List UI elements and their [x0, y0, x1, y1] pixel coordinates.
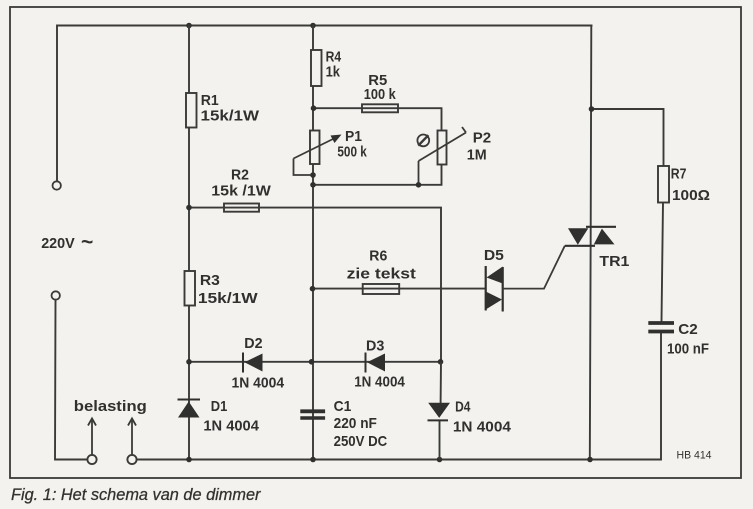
- label D3 value 1N4004: [354, 374, 405, 391]
- wire R7 to C2: [662, 203, 664, 322]
- label R3 designator: [200, 272, 220, 289]
- terminal belasting left: [87, 455, 96, 464]
- svg-text:TR1: TR1: [599, 253, 629, 270]
- label R2 value 15k/1W: [211, 183, 271, 200]
- svg-text:1N 4004: 1N 4004: [232, 375, 285, 392]
- node D4 rail at bottom wire: [437, 457, 443, 463]
- resistor R2 horizontal: [224, 204, 259, 212]
- svg-text:~: ~: [81, 231, 93, 254]
- node P2 wiper junction: [416, 182, 422, 188]
- label R4 value 1k: [326, 64, 341, 81]
- wire R1 rail vertical: [188, 26, 190, 460]
- belasting arrow left: [88, 419, 96, 455]
- svg-text:1N 4004: 1N 4004: [453, 419, 512, 436]
- resistor R6 horizontal: [363, 284, 400, 294]
- label C1 value 250V DC: [334, 433, 388, 450]
- wire R2 run: [186, 205, 441, 362]
- node D2 left junction: [186, 359, 192, 365]
- resistor R3: [185, 271, 196, 306]
- diode D1 (pointing up): [178, 400, 201, 418]
- diode D3 (pointing left): [366, 353, 386, 373]
- P1 wiper arrow: [294, 135, 342, 178]
- belasting arrow right: [128, 419, 136, 455]
- label R7 value 100ohm: [672, 187, 710, 204]
- terminal upper 220V: [53, 181, 61, 189]
- resistor R1: [186, 93, 197, 128]
- label net 220V mains: [41, 235, 75, 252]
- svg-text:15k /1W: 15k /1W: [211, 183, 271, 200]
- svg-text:500 k: 500 k: [337, 144, 367, 161]
- P1 wiper bent lead: [294, 159, 314, 176]
- label D2 designator: [244, 335, 262, 352]
- label TR1 designator: [599, 253, 629, 270]
- node P bottom run at R4 rail: [310, 182, 316, 188]
- svg-text:R2: R2: [231, 166, 249, 183]
- svg-text:C2: C2: [678, 321, 698, 338]
- node TR1 gate-branch junction: [589, 106, 595, 112]
- node R2 left junction: [186, 205, 192, 211]
- node P1 wiper junction: [310, 172, 316, 178]
- terminal belasting right: [127, 455, 136, 464]
- label P1 designator: [345, 128, 362, 145]
- P2 wiper with tick: [416, 127, 466, 188]
- label P2 designator: [473, 130, 491, 147]
- svg-text:100 k: 100 k: [364, 86, 397, 103]
- node R4 bottom / R5 / P1 junction: [311, 105, 317, 111]
- label C2 value 100nF: [667, 341, 709, 358]
- diode D4 (pointing down): [428, 403, 451, 421]
- svg-text:R7: R7: [671, 166, 687, 183]
- wire D5 gate run: [503, 246, 565, 289]
- svg-text:1M: 1M: [467, 147, 487, 164]
- label P1 value 500k: [337, 144, 367, 161]
- potentiometer P2: [438, 131, 447, 165]
- svg-text:C1: C1: [334, 398, 352, 415]
- diode D2 (pointing left): [243, 353, 263, 373]
- label D1 value 1N4004: [203, 418, 259, 435]
- label R6 value zie tekst: [347, 265, 416, 282]
- capacitor C2: [648, 323, 674, 332]
- svg-text:1k: 1k: [326, 64, 341, 81]
- wire top rail: [57, 26, 592, 182]
- triac TR1: [565, 227, 616, 246]
- wire R4 rail vertical: [312, 26, 314, 460]
- wire R5 run: [311, 105, 442, 130]
- node C1 rail at bottom wire: [310, 457, 316, 463]
- wire R7 branch: [592, 109, 664, 166]
- diac D5: [486, 266, 503, 312]
- svg-text:belasting: belasting: [74, 398, 147, 415]
- svg-text:D2: D2: [244, 335, 262, 352]
- label R1 designator: [201, 92, 219, 109]
- resistor R7: [658, 166, 669, 203]
- node D3 right junction: [438, 359, 444, 365]
- node top of R4 rail: [310, 23, 316, 29]
- wire R6 run to D5: [310, 286, 486, 292]
- svg-text:Fig. 1: Het schema van de dimm: Fig. 1: Het schema van de dimmer: [11, 486, 262, 504]
- wire P1/P2 bottom run: [310, 165, 441, 188]
- label HB 414: [677, 450, 712, 462]
- svg-text:15k/1W: 15k/1W: [198, 290, 259, 307]
- node D2/D3 middle junction: [309, 359, 315, 365]
- wire left rail lower: [55, 300, 87, 460]
- node TR1 bottom: [587, 457, 593, 463]
- label D4 designator: [455, 399, 471, 416]
- label net belasting (load): [74, 398, 147, 415]
- label R6 designator: [369, 248, 387, 265]
- svg-text:220 nF: 220 nF: [334, 415, 377, 432]
- label D5 designator: [484, 247, 504, 264]
- svg-text:D1: D1: [211, 398, 228, 415]
- label D3 designator: [366, 337, 384, 354]
- svg-text:R6: R6: [369, 248, 387, 265]
- label D4 value 1N4004: [453, 419, 512, 436]
- P2 screwdriver-adjust symbol: [417, 135, 429, 147]
- svg-text:R3: R3: [200, 272, 220, 289]
- label C1 designator: [334, 398, 352, 415]
- caption Fig. 1: [11, 486, 262, 504]
- label C2 designator: [678, 321, 698, 338]
- svg-text:1N 4004: 1N 4004: [354, 374, 405, 391]
- svg-text:100 nF: 100 nF: [667, 341, 709, 358]
- label R3 value 15k/1W: [198, 290, 259, 307]
- label R5 designator: [368, 72, 387, 89]
- label D2 value 1N4004: [232, 375, 285, 392]
- svg-text:15k/1W: 15k/1W: [201, 108, 260, 125]
- label R4 designator: [326, 49, 342, 66]
- svg-text:D3: D3: [366, 337, 384, 354]
- label 220V tilde AC symbol: [81, 231, 93, 254]
- resistor R5 horizontal: [362, 104, 398, 112]
- capacitor C1: [300, 411, 325, 418]
- wire D2 D3 run: [186, 359, 443, 365]
- svg-text:P2: P2: [473, 130, 491, 147]
- wire D4 rail: [440, 362, 442, 460]
- potentiometer P1: [310, 131, 320, 165]
- node R6 left junction: [310, 286, 316, 292]
- svg-text:1N 4004: 1N 4004: [203, 418, 259, 435]
- svg-text:D5: D5: [484, 247, 504, 264]
- label P2 value 1M: [467, 147, 487, 164]
- resistor R4: [311, 50, 322, 86]
- node top of R1 rail: [186, 23, 192, 29]
- svg-text:R1: R1: [201, 92, 219, 109]
- svg-text:P1: P1: [345, 128, 362, 145]
- svg-text:100Ω: 100Ω: [672, 187, 710, 204]
- label D1 designator: [211, 398, 228, 415]
- svg-text:D4: D4: [455, 399, 471, 416]
- label R7 designator: [671, 166, 687, 183]
- node R1 bottom rail at bottom wire: [186, 457, 192, 463]
- wire TR1 rail vertical: [590, 26, 592, 460]
- wire bottom rail: [137, 333, 661, 460]
- svg-text:zie tekst: zie tekst: [347, 265, 416, 282]
- svg-text:HB 414: HB 414: [677, 450, 712, 462]
- label R1 value 15k/1W: [201, 108, 260, 125]
- P2 wiper bent lead: [418, 161, 420, 185]
- label R5 value 100k: [364, 86, 397, 103]
- svg-text:250V DC: 250V DC: [334, 433, 388, 450]
- label R2 designator: [231, 166, 249, 183]
- label C1 value 220nF: [334, 415, 377, 432]
- svg-text:220V: 220V: [41, 235, 75, 252]
- terminal lower 220V: [52, 291, 60, 299]
